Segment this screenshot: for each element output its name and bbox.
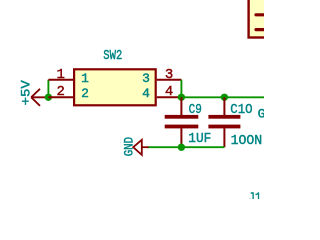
connector U? body (clipped top right)	[249, 0, 273, 38]
wire vertical left	[47, 80, 49, 98]
pin stub b	[256, 28, 266, 31]
svg-text:3: 3	[142, 71, 150, 86]
svg-text:C1O: C1O	[230, 102, 252, 118]
pin stub a	[256, 13, 266, 16]
svg-text:1: 1	[81, 71, 89, 86]
wire vertical right of SW2	[180, 80, 182, 98]
wire horizontal bottom	[148, 146, 225, 148]
svg-text:2: 2	[57, 84, 65, 100]
pin 1	[48, 79, 73, 81]
switch SW2 body	[74, 69, 156, 105]
svg-text:G: G	[258, 106, 264, 121]
svg-text:3: 3	[165, 67, 173, 83]
junction node C9 bottom	[178, 144, 185, 151]
svg-text:1UF: 1UF	[188, 131, 211, 147]
power symbol +5V	[31, 89, 48, 106]
wire horizontal top	[181, 96, 264, 98]
junction node pins 3-4	[178, 94, 185, 101]
svg-text:1: 1	[57, 67, 65, 83]
capacitor C10	[208, 97, 240, 147]
capacitor C9	[165, 97, 199, 147]
svg-text:C9: C9	[189, 102, 202, 118]
svg-text:J1: J1	[248, 191, 261, 199]
svg-text:1OON: 1OON	[231, 133, 263, 149]
pin 3	[157, 79, 182, 81]
svg-text:+5V: +5V	[19, 80, 33, 106]
svg-text:GND: GND	[123, 137, 137, 156]
svg-text:2: 2	[81, 86, 89, 101]
svg-text:SW2: SW2	[103, 49, 122, 64]
svg-text:4: 4	[142, 86, 150, 101]
junction node C10 top	[221, 94, 228, 101]
svg-text:4: 4	[165, 84, 173, 100]
pin 4	[157, 96, 182, 98]
junction dot left	[45, 94, 52, 101]
pin 2	[48, 96, 73, 98]
power symbol GND	[133, 140, 148, 155]
